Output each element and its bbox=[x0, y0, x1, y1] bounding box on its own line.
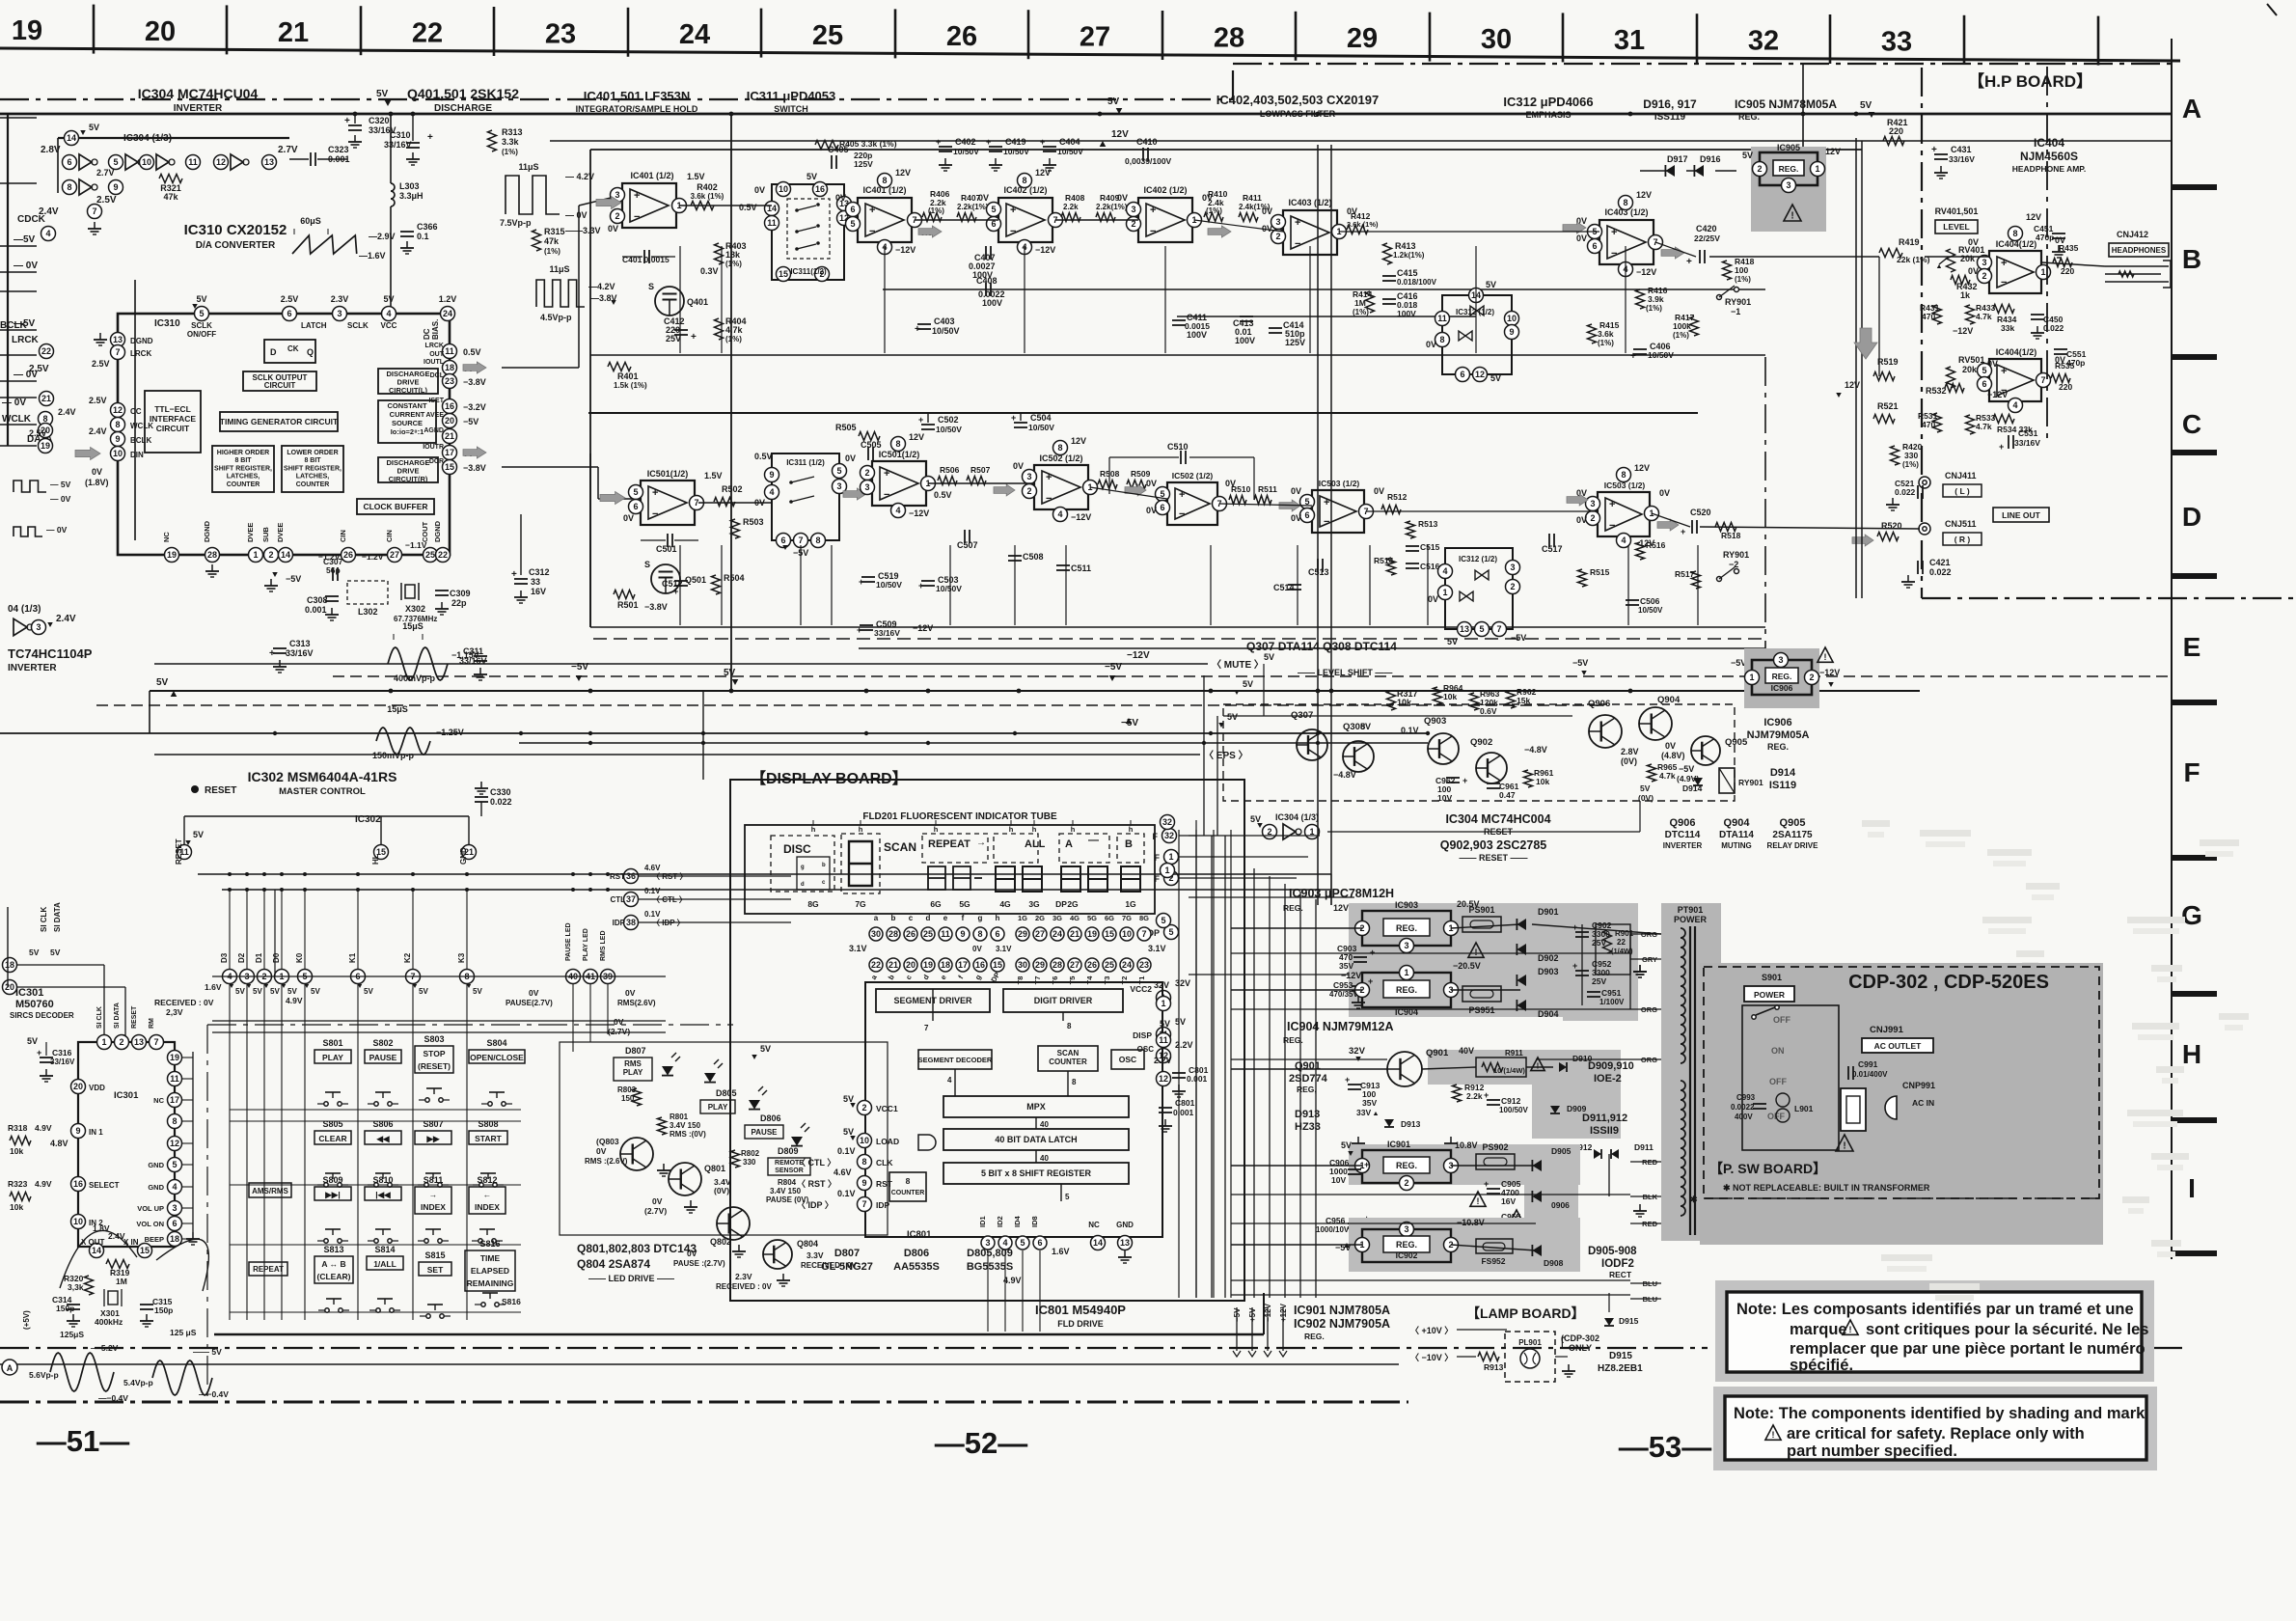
FS952 fuse bbox=[1476, 1239, 1513, 1253]
C510 feedback cap bbox=[1180, 451, 1182, 464]
C511 bbox=[1056, 564, 1070, 566]
C401 0.0015 bbox=[643, 250, 645, 263]
D904 diode bbox=[1517, 1000, 1526, 1011]
lamp dashed box bbox=[1505, 1332, 1555, 1382]
right edge section ticks bbox=[2172, 184, 2217, 190]
bottom bus right segment bbox=[1263, 1293, 1265, 1334]
key board chain vertical bbox=[206, 1025, 208, 1401]
C406 10/50V bbox=[1633, 348, 1647, 350]
R518 bbox=[1715, 523, 1736, 532]
main feed vertical pair bbox=[1317, 145, 1319, 905]
CNJ511 R connector bbox=[1919, 523, 1930, 535]
REMOTE SENSOR box bbox=[768, 1158, 810, 1175]
PT901 secondary coil bbox=[1681, 1081, 1685, 1216]
power verticals bbox=[1581, 924, 1583, 1005]
matrix feed verticals bbox=[274, 890, 276, 976]
C519 10/50V bbox=[861, 576, 875, 578]
C412 220 25V bbox=[674, 329, 688, 331]
Q906 transistor bbox=[1589, 715, 1622, 748]
C521 0.022 bbox=[1917, 485, 1919, 499]
board boundary chain line right bbox=[1233, 63, 2171, 65]
inverter A bbox=[63, 155, 77, 170]
AND gate bbox=[918, 1135, 936, 1150]
D910 diode bbox=[1559, 1062, 1567, 1072]
SEGMENT DECODER box bbox=[918, 1050, 992, 1069]
HIGHER ORDER box bbox=[212, 446, 274, 492]
R-row frame lines bbox=[590, 626, 1765, 628]
gray arrow R4 bbox=[1567, 494, 1588, 506]
R414 1M bbox=[1366, 291, 1375, 313]
R513 C515 C516 R514 bbox=[1407, 521, 1415, 538]
inverter F pin7 bbox=[88, 205, 102, 219]
bottom thick chain line bbox=[0, 1401, 1408, 1404]
power horizontals bbox=[1231, 927, 1362, 929]
mains warn bbox=[1836, 1135, 1853, 1151]
C415 0.018/100V bbox=[1382, 275, 1396, 277]
C407 0.0027 100V bbox=[985, 246, 987, 260]
R535 220 bbox=[2051, 374, 2070, 383]
op-amp IC501b bbox=[872, 461, 926, 506]
sine wave 15uS 400mV bbox=[388, 647, 448, 680]
note box french inner bbox=[1727, 1292, 2142, 1372]
IC310 left pins bbox=[111, 333, 125, 347]
LINE OUT box bbox=[1993, 508, 2049, 522]
gray arrow L2 bbox=[918, 226, 942, 237]
left pins VCC1 LOAD CLK RST IDP bbox=[858, 1101, 872, 1115]
gray arrow R1 bbox=[600, 492, 625, 505]
IC304 inverter row wires bbox=[58, 137, 289, 139]
HP dash vertical 2 bbox=[1764, 357, 1766, 675]
D917 D916 diodes bbox=[1665, 165, 1675, 177]
X302 crystal bbox=[405, 585, 415, 598]
C501 bbox=[667, 534, 669, 547]
D905 diode bbox=[1532, 1160, 1542, 1171]
mains connector box bbox=[1841, 1088, 1866, 1131]
sine wave B left bbox=[152, 1360, 212, 1395]
D914 diode bbox=[1693, 778, 1703, 785]
IC312b switch bbox=[1445, 548, 1513, 629]
Q307 transistor bbox=[1297, 729, 1327, 760]
PT901 core bbox=[1689, 926, 1691, 1235]
R404 4.7k bbox=[715, 318, 724, 340]
CONSTANT CURRENT SOURCE box bbox=[378, 400, 436, 443]
C312 33 16V bbox=[514, 578, 528, 580]
note box french warn triangle bbox=[1843, 1320, 1858, 1334]
gray down arrow HP bbox=[1854, 328, 1877, 359]
vertical feed lines right bbox=[1802, 64, 1804, 147]
display board outline bbox=[730, 780, 1244, 1301]
C955 3300 16V bbox=[1487, 1223, 1500, 1224]
D908 diode bbox=[1532, 1245, 1542, 1256]
R515 R516 C506b R517 bbox=[1578, 569, 1587, 587]
IC901 reg block bbox=[1362, 1150, 1451, 1183]
C513 C514 bbox=[1317, 559, 1319, 572]
IC905 reg shaded bbox=[1751, 147, 1826, 232]
C450 0.022 bbox=[2031, 314, 2044, 316]
gray arrow R2 bbox=[843, 488, 866, 500]
C366 0.1 bbox=[400, 231, 414, 233]
C520 bbox=[1691, 520, 1693, 534]
seg digit small bbox=[797, 857, 830, 890]
ALL box digits bbox=[994, 834, 1038, 863]
C961 0.47 bbox=[1487, 783, 1500, 784]
C509 33/16V bbox=[860, 624, 873, 626]
row F wires bbox=[1223, 715, 1572, 717]
R313 3.3k bbox=[488, 130, 497, 151]
IC301 box bbox=[78, 1042, 175, 1247]
IC902 reg block bbox=[1362, 1229, 1451, 1262]
C408 0.0022 100V bbox=[985, 283, 987, 296]
40BIT DATA LATCH bar bbox=[943, 1129, 1129, 1150]
op-amp IC502b bbox=[1167, 482, 1217, 525]
C512 R504 bbox=[674, 580, 688, 582]
C308 0.001 bbox=[325, 595, 339, 597]
R964 10k bbox=[1434, 687, 1442, 704]
C416 0.018 100V bbox=[1382, 298, 1396, 300]
op-amp IC402b second stage bbox=[1138, 198, 1192, 242]
R418 100 bbox=[1723, 261, 1732, 280]
inverter B bbox=[109, 155, 123, 170]
gray arrow IOUTL bbox=[463, 362, 486, 373]
Q501 FET bbox=[651, 564, 680, 593]
R421 220 bbox=[1883, 137, 1904, 146]
bottom thin line bbox=[0, 1363, 1399, 1365]
Q308 transistor bbox=[1343, 741, 1374, 772]
R435 220 bbox=[2053, 259, 2072, 267]
IOUTL wire to filter bbox=[502, 367, 579, 369]
R803 150 bbox=[633, 1088, 642, 1106]
RESET dot bbox=[191, 785, 199, 793]
headphone jack bbox=[2105, 265, 2169, 267]
bus line 2 bbox=[0, 732, 1428, 734]
PS902 fuse bbox=[1476, 1154, 1515, 1169]
C504 10/50V bbox=[1014, 422, 1027, 424]
L-row op-amp drops bbox=[679, 246, 681, 353]
R802 330 bbox=[731, 1150, 740, 1168]
verticals to power section bbox=[1253, 868, 1255, 1298]
R-row ground rail drops bbox=[679, 545, 681, 625]
IC906 shaded reg bbox=[1744, 648, 1819, 708]
op-amp IC501a bbox=[641, 481, 695, 525]
left edge wires bbox=[0, 117, 37, 119]
C431 33/16V bbox=[1934, 153, 1948, 155]
reset feed wires bbox=[198, 873, 1331, 875]
key board chain line bbox=[207, 1024, 733, 1026]
PS901 fuse bbox=[1462, 917, 1501, 932]
C952 3300 25V bbox=[1575, 970, 1589, 972]
D902 diode bbox=[1517, 944, 1526, 955]
REPEAT box bbox=[922, 834, 988, 863]
CDP mains dashed border bbox=[1704, 967, 2099, 1198]
TTL-ECL INTERFACE box bbox=[145, 391, 201, 453]
main top rail bbox=[0, 113, 2171, 116]
SEGMENT DRIVER box bbox=[876, 989, 990, 1012]
LED D805 bbox=[704, 1073, 716, 1083]
R321 47k bbox=[159, 175, 182, 183]
interconnect arrows display bbox=[932, 989, 934, 1021]
C316 33/16V bbox=[40, 1057, 53, 1058]
DISC segment box bbox=[771, 836, 834, 892]
R512 bbox=[1381, 506, 1401, 514]
op-amp IC403a bbox=[1283, 210, 1337, 255]
gray arrow L4 bbox=[1563, 222, 1586, 234]
Q902 transistor bbox=[1476, 753, 1507, 783]
top ruler ticks bbox=[93, 5, 96, 54]
R410 2.4k bbox=[1204, 213, 1223, 222]
IC903 shaded zone bbox=[1349, 903, 1638, 1017]
R911 warn bbox=[1531, 1058, 1544, 1071]
note box english warn triangle bbox=[1765, 1425, 1781, 1440]
LOWER ORDER box bbox=[282, 446, 343, 492]
R913 bbox=[1478, 1353, 1499, 1361]
C912 100/50V bbox=[1487, 1099, 1500, 1101]
DISCHARGE DRIVE R box bbox=[378, 457, 438, 482]
R-row 12V top rail bbox=[588, 412, 1698, 414]
R319 1M bbox=[106, 1260, 129, 1269]
IC901 shade bbox=[1349, 1144, 1580, 1185]
key matrix vertical wires bbox=[229, 984, 231, 1320]
HP board right chain border bbox=[2046, 67, 2048, 439]
C551 470p bbox=[2054, 348, 2067, 350]
SCLK OUTPUT CIRCUIT box bbox=[243, 371, 316, 391]
C411 0.0015 100V bbox=[1172, 319, 1186, 321]
inner led box bbox=[560, 1042, 888, 1235]
D CK Q latch bbox=[264, 340, 315, 363]
Q903 transistor bbox=[1428, 733, 1459, 764]
IC310 bottom pins bbox=[165, 548, 179, 563]
board boundary chain line left bbox=[0, 98, 1233, 100]
DISP pin bbox=[1157, 1028, 1171, 1042]
C323 0.001 bbox=[310, 152, 312, 166]
PAUSE PLAY RMS LED pins bbox=[566, 970, 581, 984]
left edge pins SI bbox=[3, 958, 17, 973]
CLK RST IDP input wires bbox=[639, 876, 857, 1162]
R434 33k bbox=[1993, 305, 2014, 314]
IC310 main box bbox=[118, 314, 450, 555]
-5V dashed rail upper bbox=[333, 675, 2171, 677]
TIMING GENERATOR box bbox=[220, 412, 338, 431]
DISCHARGE DRIVE L box bbox=[378, 369, 438, 394]
PS951 fuse bbox=[1462, 986, 1501, 1002]
dashed transistor row box bbox=[1223, 704, 1735, 801]
R506 R507 bbox=[938, 477, 957, 485]
ID pin drops bbox=[987, 1250, 989, 1332]
power tap horizontals bbox=[1231, 952, 1630, 954]
8 COUNTER box bbox=[889, 1172, 926, 1201]
R533 4.7k bbox=[1966, 415, 1975, 434]
IC906 warn bbox=[1818, 647, 1833, 662]
R417 100k bbox=[1690, 316, 1699, 336]
PL901 lamp bbox=[1520, 1349, 1540, 1368]
display feed wire bbox=[702, 691, 704, 780]
C307 56p bbox=[332, 567, 334, 581]
IC312a emphasis switch bbox=[1442, 295, 1512, 374]
Q804 transistor bbox=[763, 1240, 792, 1269]
R962 15k bbox=[1507, 691, 1516, 708]
B box digit bbox=[1117, 834, 1144, 863]
FLD pin row 2 bbox=[869, 958, 883, 972]
5BITx8 SHIFT REGISTER bar bbox=[943, 1163, 1129, 1184]
IC903 warn bbox=[1468, 943, 1484, 957]
C314 150p bbox=[67, 1304, 80, 1305]
VCC2 pin bbox=[1157, 991, 1171, 1005]
C956 1000/10V bbox=[1348, 1223, 1361, 1224]
C405 220p 125V bbox=[831, 155, 833, 169]
CNJ411 L connector bbox=[1919, 477, 1930, 488]
IC301 left pins bbox=[71, 1080, 86, 1094]
gray arrow L3 bbox=[1208, 226, 1231, 237]
seg digit 2 bbox=[841, 834, 880, 893]
-5V dashed rail lower bbox=[96, 704, 1601, 706]
R415 3.6k bbox=[1588, 324, 1597, 343]
small 88 digits bbox=[928, 866, 945, 890]
IOUTR wire to filter bbox=[502, 466, 598, 468]
AMS/RMS box bbox=[249, 1183, 291, 1197]
R-row dash line bbox=[593, 638, 1765, 640]
FLD F-pin wires bbox=[1179, 835, 1320, 837]
R503 bbox=[731, 519, 740, 538]
5V bus mid bbox=[150, 690, 1920, 692]
R901 22 box bbox=[1596, 924, 1630, 975]
supply rail chevrons bbox=[1236, 1307, 1238, 1351]
L-row frame lines bbox=[590, 149, 1862, 151]
R510 R511 bbox=[1229, 496, 1246, 505]
R433 4.7k bbox=[1966, 305, 1975, 324]
REPEAT box bbox=[249, 1262, 287, 1276]
IC904 reg block bbox=[1362, 973, 1451, 1007]
second square wave 11uS bbox=[536, 280, 585, 307]
IC801 chip outline bbox=[865, 982, 1162, 1237]
MPX bar bbox=[943, 1096, 1129, 1117]
L302 dashed box bbox=[347, 581, 388, 604]
PSW dashed bottom bbox=[1704, 1197, 2099, 1199]
D901 diode bbox=[1517, 919, 1526, 930]
Q802 transistor bbox=[717, 1207, 750, 1240]
IC901 warn bbox=[1470, 1192, 1486, 1206]
D907 diode bbox=[1532, 1218, 1542, 1229]
PT901 shaded column bbox=[1661, 903, 1721, 1241]
left verticals power bbox=[1178, 830, 1180, 1298]
op-amp IC404a bbox=[1989, 251, 2041, 293]
display right vertical wires bbox=[1195, 836, 1197, 1298]
HP board chain vertical bbox=[1921, 68, 1923, 598]
power switch contacts bbox=[1756, 1007, 1775, 1015]
R531 470 bbox=[1933, 413, 1942, 432]
C310 33/16V bbox=[406, 142, 420, 144]
R406 R407 bbox=[922, 213, 942, 222]
R403 18k bbox=[715, 243, 724, 264]
R419 22k bbox=[1879, 249, 1902, 258]
R408 R409 bbox=[1061, 213, 1080, 222]
R323 10k bbox=[10, 1193, 31, 1201]
R401 1.5k bbox=[608, 363, 631, 371]
R963 120k bbox=[1470, 693, 1479, 710]
left rail v bbox=[7, 114, 9, 446]
corner slash mark bbox=[2267, 4, 2277, 15]
note box english inner bbox=[1725, 1396, 2146, 1460]
op-amp IC403b bbox=[1599, 220, 1654, 264]
IC301 bottom bbox=[90, 1244, 104, 1258]
C531 33/16V bbox=[2008, 435, 2009, 449]
FLD pin row 1 bbox=[869, 927, 883, 941]
R416 3.9k bbox=[1636, 289, 1645, 309]
Q901 transistor bbox=[1387, 1052, 1422, 1086]
C451 470p bbox=[2052, 233, 2065, 234]
C311 33/16V bbox=[474, 655, 487, 657]
R532 1k bbox=[1945, 384, 1964, 393]
op-amp IC404b bbox=[1989, 359, 2041, 401]
C906 1000 10V bbox=[1348, 1168, 1361, 1170]
C913 100 35V bbox=[1348, 1084, 1361, 1085]
IC903 reg block bbox=[1362, 911, 1451, 946]
RST CTL IDP pins G bbox=[624, 869, 639, 884]
Q401 FET bbox=[655, 287, 684, 316]
mains inner box bbox=[1742, 1005, 1839, 1150]
RV401 20k pot bbox=[1947, 249, 1955, 272]
R318 10k bbox=[10, 1137, 31, 1145]
C403 10/50V bbox=[917, 323, 931, 325]
op-amp IC402a bbox=[998, 198, 1052, 242]
R320 3.3k bbox=[85, 1276, 94, 1295]
SCAN COUNTER box bbox=[1038, 1046, 1098, 1071]
C421 0.022 bbox=[1917, 561, 1919, 574]
horiz links G row bbox=[1189, 896, 1354, 898]
IC905 warn triangle bbox=[1784, 205, 1801, 221]
C962 100 10V bbox=[1446, 777, 1460, 779]
gray arrow L1 bbox=[596, 197, 621, 209]
R413 1.2k bbox=[1383, 243, 1392, 264]
CDP mains shaded box bbox=[1700, 963, 2103, 1245]
gray arrow R3 bbox=[1279, 500, 1300, 511]
pin up-stubs bbox=[229, 890, 231, 969]
HP board chain bottom bbox=[1922, 597, 2293, 599]
R402 3.6k bbox=[691, 202, 714, 210]
IC302 top wire bbox=[184, 815, 469, 817]
IC311a switch box bbox=[772, 184, 844, 280]
Q801 transistor bbox=[669, 1163, 701, 1195]
FLD tube box bbox=[745, 825, 1155, 914]
R961 10k bbox=[1524, 770, 1533, 787]
R412 3.6k bbox=[1347, 226, 1368, 234]
inverter D bbox=[186, 155, 201, 170]
R912 2.2k bbox=[1453, 1085, 1462, 1102]
12V rail bbox=[550, 140, 2171, 142]
Q803 transistor bbox=[620, 1138, 653, 1170]
R508 R509 bbox=[1098, 481, 1117, 489]
bottom bus solid line bbox=[214, 1333, 1264, 1335]
F32 F1 F2 DP5 pins bbox=[1162, 829, 1177, 843]
LED D809 bbox=[791, 1137, 803, 1146]
C309 22p bbox=[435, 590, 449, 591]
junction dots rails 2 bbox=[273, 731, 277, 735]
IC301 right pins bbox=[168, 1051, 182, 1065]
IC310 top pins bbox=[195, 307, 209, 321]
R420 330 bbox=[1891, 446, 1900, 465]
R405 3.3k bbox=[815, 141, 838, 150]
D912 D911 pair bbox=[1594, 1149, 1601, 1159]
bottom chain line 1 bbox=[0, 1347, 1708, 1349]
R411 2.4k bbox=[1239, 213, 1258, 222]
R502 bbox=[714, 498, 735, 507]
pins 32 1 5 11 12 left bbox=[1161, 815, 1175, 830]
D915 diode bbox=[1604, 1318, 1614, 1326]
sine wave A left bbox=[2, 1360, 17, 1375]
op-amp IC503a bbox=[1312, 490, 1364, 533]
R432 1k bbox=[1951, 276, 1970, 285]
C420 22/25V bbox=[1699, 250, 1701, 263]
OSC box bbox=[1111, 1050, 1144, 1069]
D3-D0 K0-K3 pins bbox=[223, 970, 237, 984]
